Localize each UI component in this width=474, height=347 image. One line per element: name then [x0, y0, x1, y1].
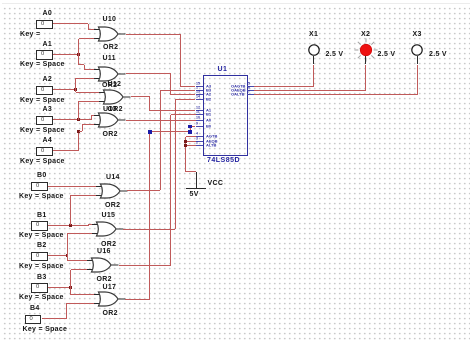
- wire A3 riser: [78, 101, 79, 120]
- wire U13 output to U1 pin 10 A0: [126, 120, 196, 121]
- wire X2 lead: [365, 56, 366, 65]
- switch A0: [43, 10, 53, 17]
- probe X3: [409, 42, 425, 58]
- wire X2 to U1: [365, 65, 366, 91]
- top white margin band: [0, 0, 474, 6]
- node A2 riser junction: [74, 88, 77, 91]
- or-gate U12: [96, 89, 131, 105]
- bottom white margin band: [0, 342, 474, 347]
- wire B3 riser: [70, 270, 71, 295]
- node B1 riser junction: [69, 224, 72, 227]
- wire A3 switch to U13 input A: [53, 119, 92, 120]
- wire A3 to U12 input B: [79, 101, 100, 102]
- wire A1 switch to riser: [53, 54, 79, 55]
- switch A1: [43, 41, 53, 48]
- or-gate U11: [91, 66, 126, 82]
- or-gate U16: [84, 257, 119, 273]
- pin 12 A1: [196, 110, 204, 111]
- pin 14 B2: [196, 99, 204, 100]
- or-gate U14: [93, 183, 128, 199]
- node B2 riser junction: [66, 254, 69, 257]
- switch A2: [43, 76, 53, 83]
- switch A3: [43, 106, 53, 113]
- wire B2 riser: [67, 234, 68, 261]
- wire U10 output to U1 pin 15 A3: [126, 34, 181, 35]
- wire B3 to U17 input A: [71, 294, 94, 295]
- pin 11 B1: [196, 114, 204, 115]
- wire B4 switch to U17 input B: [42, 318, 67, 319]
- pin 4 AGTB: [196, 136, 204, 137]
- wire B1 riser: [70, 195, 71, 225]
- node B3 riser junction: [69, 286, 72, 289]
- or-gate U17: [91, 291, 126, 307]
- wire A4 riser: [78, 132, 79, 151]
- node B0 net connector lower: [148, 130, 152, 134]
- wire B0 net vertical to pin 9: [190, 127, 191, 132]
- switch A4: [43, 137, 53, 144]
- switch B3: [37, 274, 47, 281]
- node B0 net connector right lower: [188, 130, 192, 134]
- wire B1 to U14 input B: [71, 195, 96, 196]
- pin 10 A0: [196, 120, 204, 121]
- wire U17 output to U1 pin 9 B0: [125, 299, 150, 300]
- wire B3 to U16 input B: [71, 269, 88, 270]
- switch B1: [37, 212, 47, 219]
- wire B2 switch to riser: [48, 255, 68, 256]
- wire cascade inputs to VCC: [186, 136, 196, 137]
- pin 7 OALTB: [247, 94, 255, 95]
- probe X2: [358, 42, 374, 58]
- left white margin band: [0, 0, 2, 347]
- wire U14 output to U1 pin 1 B3: [127, 190, 160, 191]
- switch B0: [37, 172, 47, 179]
- power VCC symbol: [196, 172, 197, 189]
- wire A1 to U10 input B: [79, 38, 95, 39]
- wire U16 output to U1 pin 11 B1: [119, 265, 171, 266]
- pin 1 B3: [196, 90, 204, 91]
- node A1 riser junction: [77, 53, 80, 56]
- wire B2 to U15 input B: [67, 233, 92, 234]
- wire X3 lead: [417, 56, 418, 65]
- node A3 riser junction: [77, 118, 80, 121]
- pin 3 AEQB: [196, 141, 204, 142]
- wire U12 output to U1 pin 12 A1: [131, 96, 150, 97]
- wire U11 output to U1 pin 13 A2: [126, 73, 171, 74]
- wire A2 riser: [75, 78, 76, 92]
- wire A2 to U12 input A: [76, 92, 100, 93]
- or-gate U15: [89, 221, 124, 237]
- wire A2 switch to riser: [53, 89, 76, 90]
- node B0 net connector right upper: [188, 125, 192, 129]
- pin 5 OAGTB: [247, 86, 255, 87]
- wire A4 switch to riser: [53, 150, 79, 151]
- wire B1 to U15 input A: [88, 224, 89, 227]
- wire A1 riser: [78, 39, 79, 65]
- pin 6 OAEQB: [247, 90, 255, 91]
- wire X1 lead: [313, 56, 314, 65]
- wire B0 switch to U14 input A: [48, 186, 96, 187]
- wire A2 to U11 input B: [76, 78, 95, 79]
- right white margin band: [470, 0, 474, 347]
- wire X1 to U1: [313, 65, 314, 87]
- wire U15 output to U1 pin 14 B2: [123, 229, 175, 230]
- or-gate U13: [91, 112, 126, 128]
- wire A0 switch to U10 input A: [53, 23, 89, 24]
- chip U1 74LS85D: [203, 75, 248, 156]
- or-gate U10: [91, 26, 126, 42]
- wire B2 to U16 input A: [67, 260, 87, 261]
- switch B4: [30, 305, 40, 312]
- probe X1: [306, 42, 322, 58]
- wire B1 switch to riser: [48, 225, 89, 226]
- pin 9 B0: [196, 126, 204, 127]
- pin 2 ALTB: [196, 145, 204, 146]
- junction AEQB: [184, 140, 187, 143]
- wire A4 to U13 input B: [79, 131, 83, 132]
- wire A1 to U11 input A: [79, 64, 85, 65]
- wire X3 to U1: [417, 65, 418, 95]
- pin 13 A2: [196, 94, 204, 95]
- junction ALTB: [184, 144, 187, 147]
- node A4 corner junction: [77, 130, 80, 133]
- switch B2: [37, 242, 47, 249]
- pin 15 A3: [196, 86, 204, 87]
- wire B3 switch to riser: [48, 287, 71, 288]
